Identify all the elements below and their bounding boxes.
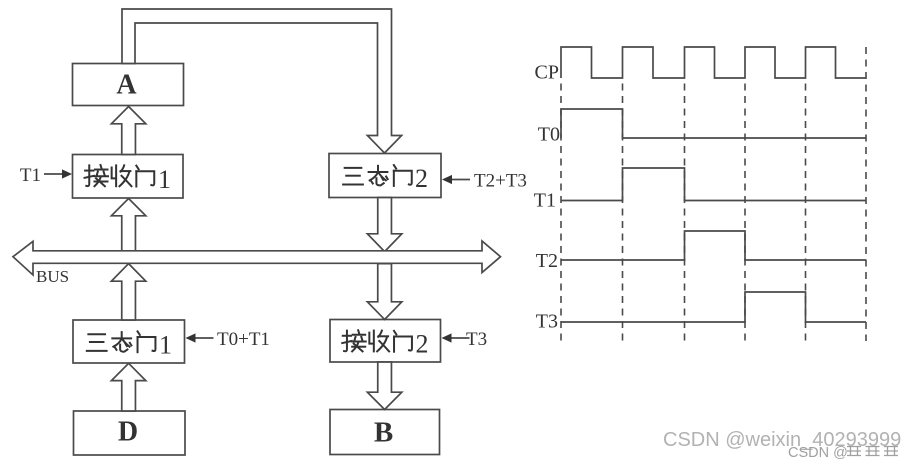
svg-text:A: A <box>116 70 137 101</box>
svg-text:T0: T0 <box>538 124 560 146</box>
svg-text:CSDN @: CSDN @ <box>788 445 848 461</box>
svg-text:CSDN @weixin_40293999: CSDN @weixin_40293999 <box>663 429 901 451</box>
svg-text:T1: T1 <box>534 190 556 212</box>
svg-text:B: B <box>374 417 393 449</box>
svg-text:2: 2 <box>416 330 429 359</box>
svg-text:T3: T3 <box>536 311 558 333</box>
svg-text:T0+T1: T0+T1 <box>217 329 270 350</box>
svg-text:BUS: BUS <box>36 267 69 286</box>
svg-text:T3: T3 <box>466 329 487 350</box>
svg-text:1: 1 <box>159 331 172 360</box>
svg-text:2: 2 <box>415 164 428 193</box>
svg-text:1: 1 <box>158 165 171 194</box>
svg-text:T1: T1 <box>20 165 41 186</box>
svg-text:T2+T3: T2+T3 <box>474 171 527 192</box>
svg-text:CP: CP <box>535 62 559 84</box>
svg-text:T2: T2 <box>536 250 558 272</box>
svg-text:D: D <box>118 417 138 448</box>
